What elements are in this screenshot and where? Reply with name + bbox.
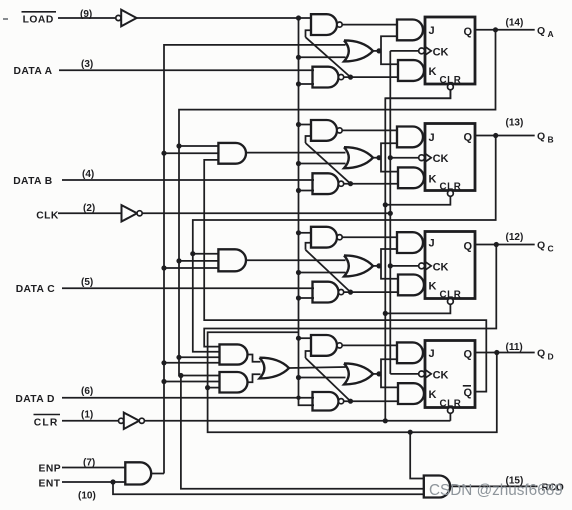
wire OB out [373,157,381,159]
svg-text:K: K [429,389,437,401]
wire to NAND A bot in2 [299,83,315,85]
wire NB1 out to J gate [342,129,398,131]
wire ENT to RCO gate [113,482,424,494]
node CK-B [388,155,393,160]
flip-flop UD [425,341,475,408]
and-gate KC [398,275,424,296]
wire T stub AND D2 [164,381,220,383]
bus LOAD-bar vertical [298,18,300,398]
wire to OR B in2 [299,163,346,165]
wire diagonal B [306,143,351,184]
svg-text:CLK: CLK [36,210,59,221]
svg-text:(2): (2) [83,203,95,214]
svg-text:(14): (14) [506,17,524,28]
wire ND2 out [344,400,399,402]
wire QA out [475,29,535,31]
CLR bubble B [448,191,454,197]
wire JA to FF [423,29,425,31]
bus QA vertical [179,30,496,376]
speck [3,18,8,20]
CLR bubble C [448,299,454,305]
svg-text:Q: Q [464,349,473,361]
CK bubble A [419,48,425,54]
wire OC to K in1 [381,266,399,279]
svg-text:CLR: CLR [34,418,59,429]
wire OB to J in2 [381,143,398,157]
node LOAD-bar to NAND B bottom [296,188,301,193]
wire DATA C [62,287,314,289]
svg-text:(5): (5) [81,277,93,288]
wire JB to FF [423,136,425,138]
svg-text:(3): (3) [81,59,93,70]
wire CLR tap B [385,196,450,205]
CK bubble D [419,371,425,377]
node LOAD-bar to NAND C bottom [296,295,301,300]
svg-text:Q: Q [537,348,545,360]
flip-flop UC [425,232,475,299]
svg-text:DATA B: DATA B [13,176,52,187]
svg-text:Q: Q [464,26,473,38]
and-gate KD [398,383,424,404]
CK wedge B [425,153,431,162]
node LOAD-bar to OR C [296,270,301,275]
nand-gate NB2 (bottom) [313,173,339,194]
wire to OR A in2 [299,56,346,58]
CK wedge C [425,262,431,271]
wire NC1 out to J gate [342,236,398,238]
wire NA1 out to J gate [342,24,398,26]
wire QB stub AND C [193,253,219,255]
inverter U3 (CLR) [119,418,124,423]
node LOAD-bar to NAND C top [296,230,301,235]
bus CK vertical [389,51,391,374]
wire QA stub AND D1 [179,356,220,358]
wire QA stub AND C [179,260,219,262]
node CLR-CLRbus [383,418,388,423]
bus CLR vertical [385,90,450,421]
node T to AND B [161,151,166,156]
node LOAD-bar to NAND D top [296,336,301,341]
wire DATA B [62,179,314,181]
wire RCO out [450,485,537,487]
wire CK stub C [390,265,418,267]
inverter U1 (LOAD) [116,15,121,20]
wire NC2 out [344,291,399,293]
wire JC to FF [423,242,425,244]
inverter U2 (CLK) [122,205,138,221]
and-gate JD [397,342,423,363]
or-gate OA (middle) [344,40,373,61]
wire QA to RCO [181,376,424,489]
node T to AND D2 [161,379,166,384]
wire QA stub AND B [179,145,219,147]
and-gate JA [397,20,423,41]
svg-text:J: J [429,25,435,37]
svg-text:CK: CK [433,261,449,273]
flip-flop UA [425,17,475,84]
wire diagonal D [306,358,351,401]
and-gate JB [397,127,423,148]
node NB2-diag [348,181,353,186]
svg-text:C: C [548,244,554,254]
wire to OR D in2 [299,377,346,379]
svg-text:A: A [548,29,554,39]
svg-text:Q: Q [464,241,473,253]
wire QD stub AND D2 [208,387,220,389]
wire QD out [475,352,535,354]
wire NA1 in2 stub [306,30,313,37]
svg-text:DATA C: DATA C [16,284,56,295]
node QA to AND D1 [176,355,181,360]
CK wedge D [425,370,431,379]
wire CLK to CK bus [142,212,390,214]
wire to NAND C in1 [299,232,313,234]
and-gate U4 (ENP-ENT) [125,462,151,484]
svg-text:CSDN @zhusf6689: CSDN @zhusf6689 [429,482,563,499]
svg-text:Q: Q [464,387,473,399]
node QB [493,133,498,138]
wire KC to FF [424,284,425,286]
bus QB vertical [193,136,496,352]
wire AND D2 out step [248,374,261,382]
wire CLR tap C [385,304,450,313]
svg-text:LOAD: LOAD [23,15,54,26]
node QA [493,27,498,32]
node LOAD-bar to OR B [296,161,301,166]
wire CLK to inverter [58,212,121,214]
wire CK stub D [390,373,418,375]
wire T output [151,473,164,475]
wire ENP [62,467,126,469]
bus QD vertical [208,332,497,432]
wire CK stub B [390,157,418,159]
node LOAD-bar to OR D [296,375,301,380]
wire T stub AND B [164,152,219,154]
svg-text:Q: Q [537,25,545,37]
svg-text:J: J [429,132,435,144]
or-gate OC (middle) [344,255,373,276]
svg-text:Q: Q [537,131,545,143]
svg-text:K: K [429,173,437,185]
wire CLR to inverter [62,420,119,422]
wire OD to J in2 [381,359,398,374]
svg-text:Q: Q [537,240,545,252]
and-gate G-D1 [220,344,248,364]
node NA2-diag [348,75,353,80]
wire KA to FF [424,70,425,72]
svg-text:ENP: ENP [39,464,62,475]
wire NB1 in2 stub [306,136,313,143]
CLR bubble A [448,84,454,90]
svg-text:J: J [429,238,435,250]
nand-gate NA2 (bottom) [313,67,339,88]
nand-gate NA1 (top) [311,14,337,35]
wire OA to K in1 [381,51,399,64]
wire KB to FF [424,177,425,179]
svg-text:DATA D: DATA D [15,394,54,405]
wire OC out [373,265,381,267]
nand-gate NC2 (bottom) [313,282,339,303]
bus T (count enable) vertical [164,45,346,474]
bus QC vertical [204,245,496,347]
node QA to AND B [176,143,181,148]
svg-text:(4): (4) [82,169,94,180]
wire AND D1 out step [248,355,261,362]
and-gate G-C (T*QA*QB) [218,249,246,271]
wire to NAND B bot in2 [299,190,315,192]
nand-gate ND2 (bottom) [313,392,339,411]
wire QB out [475,135,535,137]
node QC [494,242,499,247]
wire AND B out [246,152,346,154]
wire to NAND B in1 [299,124,313,126]
wire to NAND C bot in2 [299,297,315,299]
CK bubble C [419,263,425,269]
bus QD-bar vertical [204,160,486,392]
CK wedge A [425,47,431,56]
nand-gate ND1 (top) [311,335,337,356]
node LOAD-bar to NAND A bottom [296,81,301,86]
wire KD to FF [424,393,425,395]
svg-text:K: K [429,280,437,292]
svg-text:D: D [548,352,554,362]
wire T stub AND C [164,267,219,269]
wire LOAD-bar to NAND A [137,17,312,19]
CK bubble B [419,155,425,161]
wire LOAD to inverter [58,17,116,19]
wire CLR line [144,420,450,422]
svg-text:ENT: ENT [39,479,61,490]
wire OA out [373,50,381,52]
wire OA to J in2 [381,36,398,51]
CLR bubble D [448,408,454,414]
bus LOAD-bar jog to NAND D [299,398,315,406]
wire CK stub A [390,50,418,52]
wire JD to FF [423,352,425,354]
wire OB to K in1 [381,158,399,172]
svg-text:Q: Q [464,132,473,144]
node QD to RCO [408,430,413,435]
wire ND1 out to J gate [342,344,398,346]
node LOAD-bar DATA D crossing [296,396,300,400]
wire to NAND D in1 [299,337,313,339]
svg-text:(13): (13) [506,118,524,129]
svg-text:(12): (12) [506,232,524,243]
node ENT branch [110,479,115,484]
node OB fanout [376,155,381,160]
svg-text:CK: CK [433,153,449,165]
node ND2-diag [348,399,353,404]
wire QC out [475,244,535,246]
or-gate OB (middle) [344,147,373,168]
wire QD down to RCO [410,432,424,478]
flip-flop UB [425,124,475,191]
svg-text:CK: CK [433,369,449,381]
node NC2-diag [348,290,353,295]
svg-text:(1): (1) [81,410,93,421]
and-gate JC [397,232,423,253]
wire DATA D [62,397,314,399]
wire OC to J in2 [381,249,398,266]
wire to OR C in2 [299,272,346,274]
svg-text:B: B [548,135,554,145]
and-gate G-RCO [424,476,450,498]
wire NC1 in2 stub [306,243,313,250]
node QA to AND C [176,258,181,263]
node OA fanout [376,48,381,53]
wire CLR tap A [385,90,450,99]
svg-text:(11): (11) [506,342,523,353]
wire NB2 out [344,183,399,185]
nand-gate NC1 (top) [311,227,337,248]
svg-text:(6): (6) [81,386,93,397]
svg-text:(10): (10) [78,491,96,502]
wire ND1 in2 stub [306,351,313,358]
svg-text:K: K [429,66,437,78]
wire OD out [373,373,381,375]
wire CLR riser to FF D [449,413,451,421]
wire ENT [62,481,126,483]
or-gate G-D3 [260,358,290,379]
svg-text:J: J [429,348,435,360]
node QA branch to RCO [178,373,183,378]
node LOAD-bar to OR A [296,55,301,60]
wire OR D3 out [289,367,346,368]
wire NA2 out [344,76,399,78]
node LOAD-bar top [296,15,301,20]
and-gate KA [398,60,424,81]
and-gate G-D2 [220,372,248,393]
and-gate G-B (T*QA*QDbar) [218,143,246,164]
node CLK-CKbus [388,211,393,216]
nand-gate NB1 (top) [311,120,337,141]
wire OD to K in1 [381,374,399,388]
wire AND C out [246,259,346,261]
node CK-C [388,263,393,268]
node CLR bus B [383,202,388,207]
node OD fanout [376,371,381,376]
node T to AND C [161,265,166,270]
wire T stub AND D1 [164,362,220,364]
svg-text:CK: CK [433,46,449,58]
node QB to AND C [190,251,195,256]
node LOAD-bar to NAND B top [296,122,301,127]
wire diagonal A [306,37,351,77]
wire diagonal C [306,250,351,292]
node QD [494,350,499,355]
wire DATA A [59,69,314,71]
node OC fanout [376,263,381,268]
node T to AND D1 [161,360,166,365]
and-gate KB [398,167,424,188]
or-gate OD (middle) [344,363,373,384]
svg-text:DATA A: DATA A [14,66,53,77]
node QD to AND D2 [205,385,210,390]
node CLR bus C [383,311,388,316]
